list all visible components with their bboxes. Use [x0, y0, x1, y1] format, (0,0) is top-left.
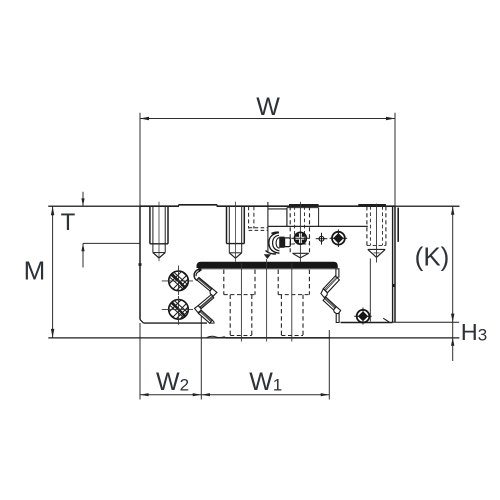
arrowhead T bottom (pointing up) [81, 243, 84, 251]
block bottom right extension for K H3 [393, 321, 460, 323]
left elbow 1 [210, 288, 217, 296]
nipple neck [279, 237, 284, 248]
block shoulder line for T [83, 242, 140, 244]
end plate top line [268, 225, 368, 227]
arrowhead K bottom [451, 314, 454, 323]
ball 2 centerline horizontal [162, 308, 193, 310]
left band 1 hatch b [198, 278, 211, 289]
screw cross horizontal [354, 315, 371, 317]
hole2 outer right [243, 206, 245, 243]
nipple bell mid arc [273, 235, 280, 251]
small cross vertical [321, 233, 323, 245]
dimension W1 extension right [328, 330, 330, 400]
screw circle [357, 310, 370, 323]
holeB counterbore right dash [308, 270, 310, 295]
top lip 1 step left [178, 205, 180, 207]
hole3 inner left dash [294, 206, 296, 244]
nipple boss left vertical [286, 208, 288, 227]
left band 2 [198, 295, 214, 309]
nipple bell outer arc [269, 233, 280, 254]
dimension T lower arrow line [82, 243, 84, 267]
hole3 outer right dash [309, 206, 311, 252]
block bottom-left chamfer [140, 320, 144, 324]
right band 1 [323, 276, 339, 293]
top lip 1 step right [216, 205, 218, 207]
medium screw cross vertical [337, 229, 339, 247]
block bottom left segment [144, 322, 208, 324]
dimension W extension left [139, 113, 141, 206]
rail center centerline [266, 259, 268, 342]
right band 2 [323, 297, 336, 310]
block body right face above shoulder [397, 208, 399, 242]
right elbow 2 [334, 307, 341, 315]
nipple bell inner arc [276, 238, 279, 249]
svg-text:(K): (K) [415, 241, 450, 271]
right elbow 1 [321, 289, 328, 298]
hole4 point V left [368, 249, 377, 257]
dimension H3 connector [452, 322, 454, 338]
dimension T upper arrow line [82, 192, 84, 206]
nipple pocket top line [268, 208, 287, 210]
nipple boss right vertical [318, 208, 320, 227]
hole4 outer left dash [366, 206, 368, 245]
dimension M line [52, 206, 54, 338]
nipple end wedge SW [296, 240, 300, 244]
ball 2 hatch [162, 290, 198, 331]
medium screw diamond [333, 233, 343, 243]
hole4 centerline [376, 204, 378, 263]
arrowhead T top (pointing down) [81, 198, 84, 206]
hole1 drill bottom [153, 252, 165, 254]
small cross horizontal [316, 238, 328, 240]
block left edge [139, 206, 141, 319]
ball 2 circle [169, 300, 189, 320]
svg-text:T: T [61, 209, 76, 236]
svg-text:M: M [24, 256, 46, 286]
hidden slot horizontal dash upper [249, 227, 268, 229]
block right edge inner [392, 206, 394, 322]
block right inner chamfer [383, 318, 390, 322]
top surface thick over block [140, 205, 395, 207]
top lip 2 [289, 204, 319, 206]
nipple end circle [295, 232, 307, 244]
svg-text:W1: W1 [249, 368, 282, 396]
hole4 bottom dash [367, 244, 386, 246]
hidden slot left dash [248, 206, 250, 228]
holeB bore right dash [302, 295, 304, 336]
hidden slot horizontal dash lower [249, 229, 268, 231]
arrowhead M bottom [51, 329, 54, 338]
nipple end wedge SE [302, 240, 306, 244]
left band 1 hatch [198, 279, 211, 290]
hole2 point right [236, 253, 242, 258]
hole2 inner right [241, 206, 243, 253]
nipple pocket left edge [267, 202, 269, 253]
ball 2 centerline vertical [178, 296, 180, 325]
base line (rail bottom) [48, 337, 459, 339]
hole1 outer right [167, 206, 169, 244]
nipple boss line under surface [287, 207, 319, 209]
holeA centerline [240, 263, 242, 342]
dimension W extension right [394, 113, 396, 206]
right top band vertical [336, 269, 339, 278]
hidden slot right dash [253, 206, 255, 228]
rail top bar [197, 262, 338, 267]
small cross circle [319, 236, 324, 241]
top lip 3 [358, 204, 386, 206]
nipple end wedge NE [302, 233, 306, 237]
ball 1 centerline vertical [178, 266, 180, 295]
hole4 point V top [368, 248, 385, 250]
hole1 centerline [158, 202, 160, 262]
hole4 outer right dash [385, 206, 387, 245]
hole3 point right [300, 253, 308, 258]
right band 2 hatch [325, 299, 335, 309]
hole1 point left [153, 253, 159, 258]
base line thick under rail [226, 337, 330, 339]
nipple end cross horizontal [291, 237, 310, 239]
medium screw cross horizontal [330, 237, 348, 239]
hole4 inner right dash [382, 206, 384, 245]
dimension K extension top [395, 205, 460, 207]
holeA bore bottom dash [230, 335, 252, 337]
svg-text:W2: W2 [156, 368, 189, 396]
arrowhead H3 bottom (pointing up) [451, 338, 454, 346]
arrowhead W left [140, 117, 149, 120]
rail top bar bottom line [198, 268, 337, 270]
top surface line [48, 205, 459, 207]
arrowhead W right [386, 117, 395, 120]
hole1 inner right [164, 206, 166, 252]
arrowhead M top [51, 206, 54, 215]
svg-text:W: W [256, 93, 280, 121]
left seal hook inner [196, 271, 200, 276]
dimension W line [140, 118, 395, 120]
base line wiggle [206, 336, 227, 338]
dimension H3 lower arrow line [452, 338, 454, 361]
right band 1 hatch b [324, 277, 336, 290]
hole2 point left [229, 253, 235, 258]
block right edge outer [394, 206, 396, 322]
right band 1 hatch [325, 278, 337, 291]
top lip 1 [179, 204, 218, 206]
hole1 point right [159, 253, 165, 258]
left elbow 2 [195, 306, 202, 313]
end face inner vertical below hole 4 [369, 259, 371, 322]
medium screw circle [332, 232, 345, 245]
holeB bore bottom dash [281, 335, 303, 337]
hole3 inner right dash [304, 206, 306, 244]
screw diamond [358, 311, 368, 321]
holeB counterbore bottom dash [278, 294, 309, 296]
nipple end wedge NW [296, 233, 300, 237]
nipple top shade [272, 232, 280, 233]
left band 2 hatch b [200, 297, 213, 308]
hole2 outer left [226, 206, 228, 243]
block bottom right segment [341, 322, 393, 324]
left seal hook blob [198, 268, 201, 271]
left zigzag bottom closure [210, 320, 214, 323]
hole2 centerline [235, 202, 237, 262]
screw cross vertical [362, 308, 364, 325]
right bottom verticals [336, 313, 339, 322]
dimension M extension top [48, 205, 140, 207]
hole4 centerline tick [374, 252, 380, 254]
nipple tip [285, 238, 291, 247]
dimension K line [452, 206, 454, 322]
top lip 1 gap [179, 205, 217, 207]
holeB centerline [291, 263, 293, 342]
hole2 drill bottom [229, 252, 241, 254]
hole3 drill bottom solid [293, 252, 309, 254]
holeB bore left dash [280, 295, 282, 336]
arrowhead W1 right [321, 393, 330, 396]
hole1 thread bottom [150, 243, 168, 245]
arrowhead W2 left [140, 393, 149, 396]
dimension W2-W1 boundary extension [200, 313, 202, 400]
left band 1 [197, 277, 212, 291]
holeB counterbore left dash [277, 270, 279, 295]
left band 2 hatch [200, 296, 213, 307]
hole2 inner left [228, 206, 230, 253]
left seal hook [194, 269, 201, 281]
left band 3 [199, 310, 213, 323]
svg-text:H3: H3 [461, 319, 487, 345]
right band 2 hatch b [325, 298, 335, 308]
ball 1 centerline horizontal [162, 280, 193, 282]
hole3 point left [293, 253, 301, 258]
ball 1 hatch [162, 262, 198, 303]
hole4 inner left dash [369, 206, 371, 245]
nipple lower tip triangle [264, 254, 271, 259]
hole1 outer left [149, 206, 151, 244]
hole3 centerline [299, 202, 301, 262]
left band 3 hatch b [201, 311, 212, 321]
holeA counterbore bottom dash [224, 294, 255, 296]
holeA counterbore left dash [223, 270, 225, 295]
hole1 inner left [152, 206, 154, 252]
hole3 outer left dash [289, 206, 291, 252]
hole3 thread bottom dash [291, 243, 309, 245]
holeA bore left dash [229, 295, 231, 336]
arrowhead W2 right [193, 393, 202, 396]
holeA bore right dash [251, 295, 253, 336]
hole2 thread bottom [227, 243, 245, 245]
dimension W2 W1 line [140, 394, 329, 396]
hole4 point V right [377, 249, 386, 257]
right edge knot [392, 284, 395, 287]
nipple bell lower lip [266, 251, 277, 254]
dimension W2 extension left [139, 323, 141, 400]
ball 1 circle [169, 271, 189, 291]
arrowhead W1 left [201, 393, 210, 396]
left edge knot [139, 263, 142, 266]
left band 3 hatch [200, 312, 211, 322]
holeA counterbore right dash [254, 270, 256, 295]
arrowhead K top [451, 206, 454, 215]
